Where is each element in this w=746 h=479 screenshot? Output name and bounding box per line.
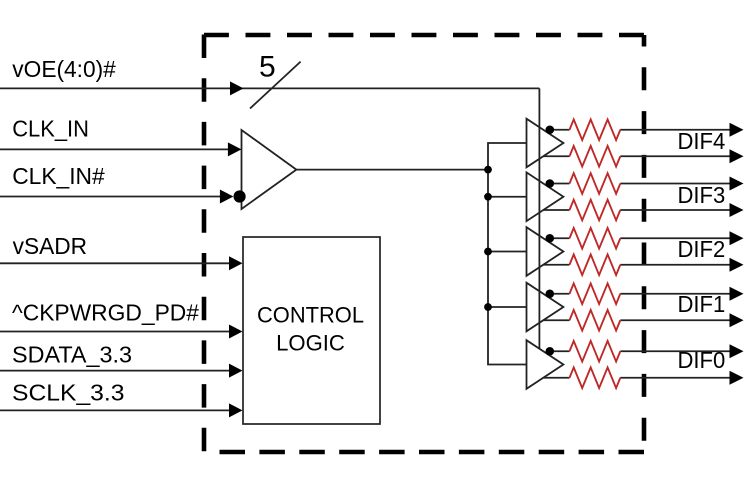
svg-text:DIF4: DIF4 [678,128,726,154]
svg-text:vSADR: vSADR [13,233,88,259]
svg-text:SCLK_3.3: SCLK_3.3 [12,380,125,406]
svg-text:^CKPWRGD_PD#: ^CKPWRGD_PD# [12,299,199,325]
svg-text:DIF3: DIF3 [678,182,726,208]
svg-text:CLK_IN#: CLK_IN# [12,163,105,189]
svg-text:CONTROL: CONTROL [257,302,364,327]
svg-text:CLK_IN: CLK_IN [12,116,89,142]
svg-text:SDATA_3.3: SDATA_3.3 [12,341,132,367]
svg-text:LOGIC: LOGIC [276,330,345,355]
svg-text:DIF2: DIF2 [678,236,726,262]
svg-text:vOE(4:0)#: vOE(4:0)# [12,56,116,82]
svg-text:5: 5 [259,50,276,83]
svg-text:DIF1: DIF1 [678,291,726,317]
svg-text:DIF0: DIF0 [678,347,726,373]
